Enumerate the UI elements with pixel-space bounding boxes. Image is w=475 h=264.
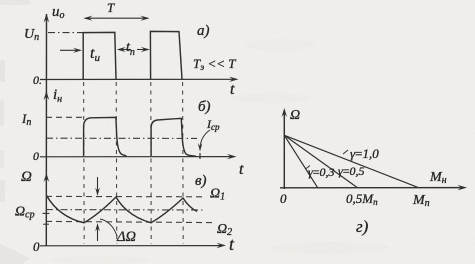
current pulse 2	[151, 118, 196, 156]
t_i arrow (into pulse)	[60, 49, 80, 51]
delta-Omega lower arrow	[97, 226, 99, 241]
dashed vertical line x=116	[115, 82, 118, 244]
line gamma=1.0	[284, 135, 418, 187]
middle time axis	[40, 156, 234, 158]
svg-text:γ=1,0: γ=1,0	[350, 146, 379, 161]
svg-text:в): в)	[195, 173, 207, 189]
I_sr dash-dot average line	[46, 137, 197, 139]
right y axis	[283, 110, 285, 189]
svg-text:0: 0	[33, 239, 40, 254]
top time axis	[40, 78, 236, 80]
dashed vertical line x=150.5	[150, 82, 152, 244]
pulse 1	[83, 32, 116, 79]
svg-text:γ=0,3: γ=0,3	[308, 165, 335, 179]
I_sr tick below axis	[199, 153, 201, 159]
axis arrowhead top plot	[44, 14, 50, 23]
Omega2 dashed level	[46, 221, 213, 222]
svg-text:t: t	[230, 81, 235, 98]
middle axis arrowhead	[227, 154, 237, 159]
svg-text:0: 0	[280, 191, 287, 206]
Omega_sr dash-dot level	[46, 209, 205, 211]
axis arrowhead middle plot	[44, 91, 50, 100]
Omega1 dashed level	[46, 195, 206, 197]
current pulse 1	[84, 117, 127, 156]
svg-text:Тэ << Т: Тэ << Т	[193, 56, 236, 72]
leader tick gamma=0,3	[306, 166, 311, 170]
svg-text:T: T	[107, 0, 115, 15]
t_p left arrow	[119, 49, 131, 51]
delta-Omega upper arrow	[97, 177, 99, 193]
svg-text:t: t	[239, 161, 244, 178]
pulse 2	[150, 31, 182, 79]
T period double arrow	[85, 17, 148, 19]
dashed vertical line x=83.5	[83, 82, 86, 244]
bottom time axis	[40, 245, 222, 247]
Un level dash-dot line	[48, 32, 83, 34]
top axis arrowhead	[229, 77, 239, 82]
I_n level dashes	[46, 116, 82, 118]
svg-text:г): г)	[356, 217, 369, 236]
leader tick gamma=1,0	[343, 150, 348, 154]
svg-text:ΔΩ: ΔΩ	[116, 229, 136, 245]
svg-text:а): а)	[197, 23, 210, 39]
t_p right arrow	[137, 49, 148, 51]
dashed vertical line x=182.5	[182, 82, 185, 244]
line gamma=0.3	[284, 135, 317, 187]
tick Omega_2 on axis	[43, 223, 49, 225]
tick Omega_sr on axis	[43, 212, 50, 214]
svg-text:0: 0	[33, 149, 39, 163]
right y axis arrowhead	[282, 108, 287, 117]
Omega ripple curve	[47, 196, 198, 223]
delta-Omega leader line	[100, 219, 117, 236]
line gamma=0.5	[284, 135, 357, 187]
right x axis arrowhead	[458, 185, 468, 191]
svg-text:Ω: Ω	[290, 108, 300, 123]
axis arrowhead bottom plot	[44, 173, 50, 182]
svg-text:Ω: Ω	[21, 169, 32, 185]
svg-text:γ=0,5: γ=0,5	[338, 164, 365, 178]
I_sr pointer arrow	[200, 130, 210, 148]
bottom axis arrowhead	[217, 243, 227, 248]
shared vertical axis (left plots)	[45, 14, 47, 246]
right x axis	[280, 187, 464, 189]
svg-text:б): б)	[198, 99, 211, 115]
